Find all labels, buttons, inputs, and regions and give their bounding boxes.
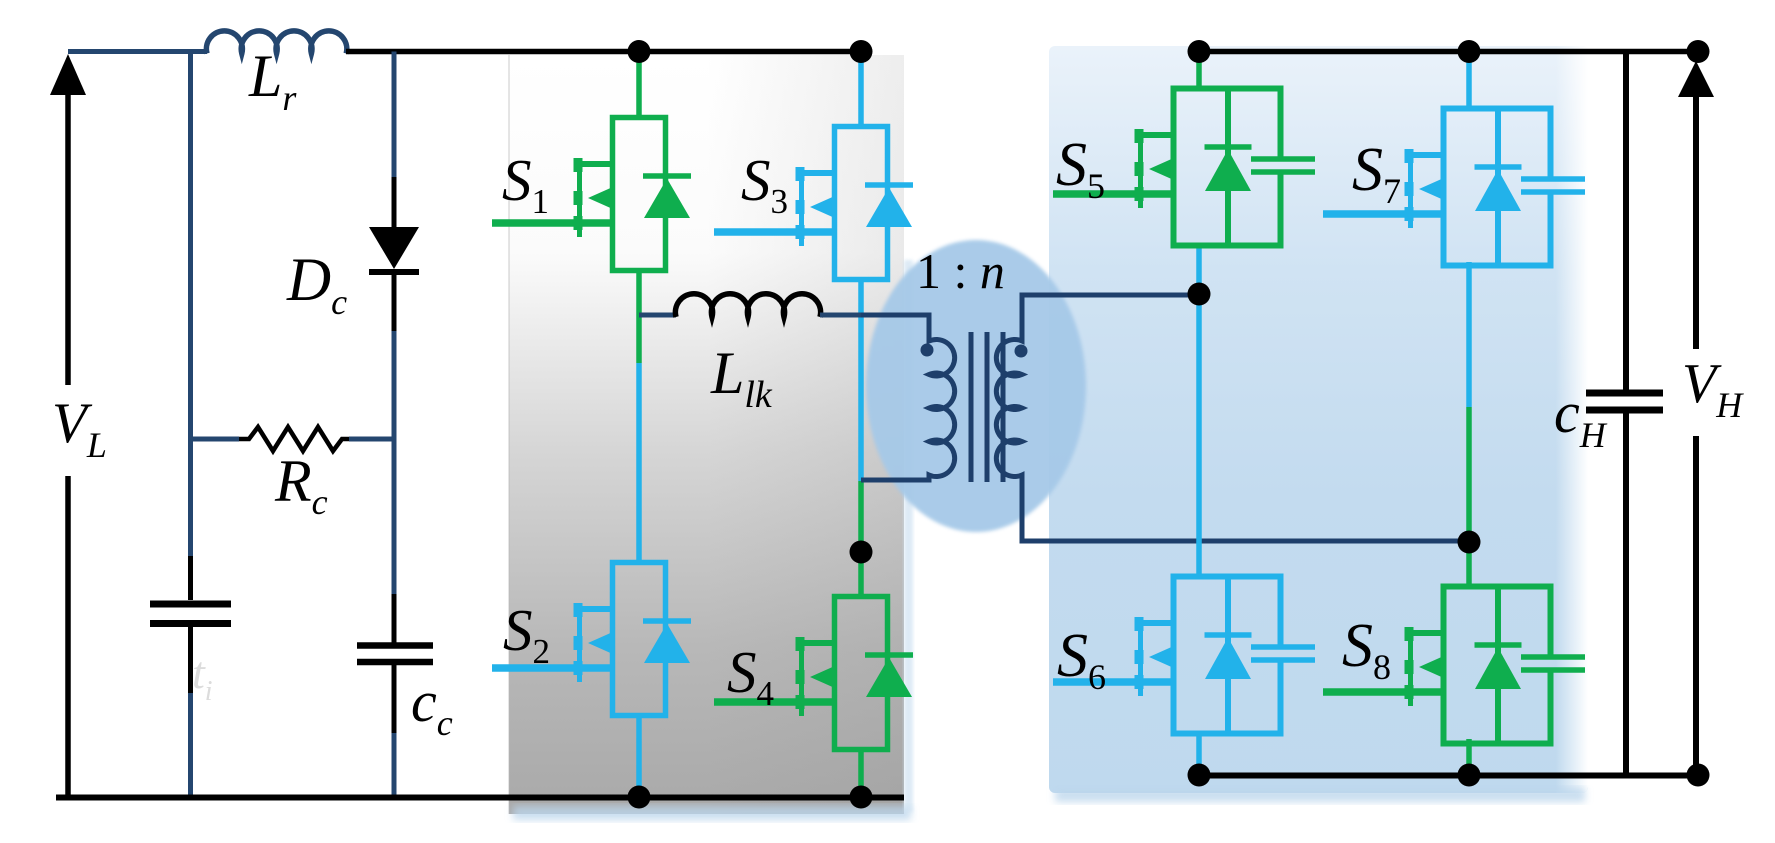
svg-text:VH: VH <box>1682 353 1744 425</box>
svg-text:ti: ti <box>192 647 213 707</box>
svg-text:Lr: Lr <box>248 43 297 118</box>
svg-text:1 : n: 1 : n <box>916 243 1005 299</box>
svg-text:Dc: Dc <box>286 247 347 322</box>
svg-text:VL: VL <box>52 392 107 465</box>
svg-text:Rc: Rc <box>274 448 328 522</box>
svg-text:cc: cc <box>411 669 453 743</box>
